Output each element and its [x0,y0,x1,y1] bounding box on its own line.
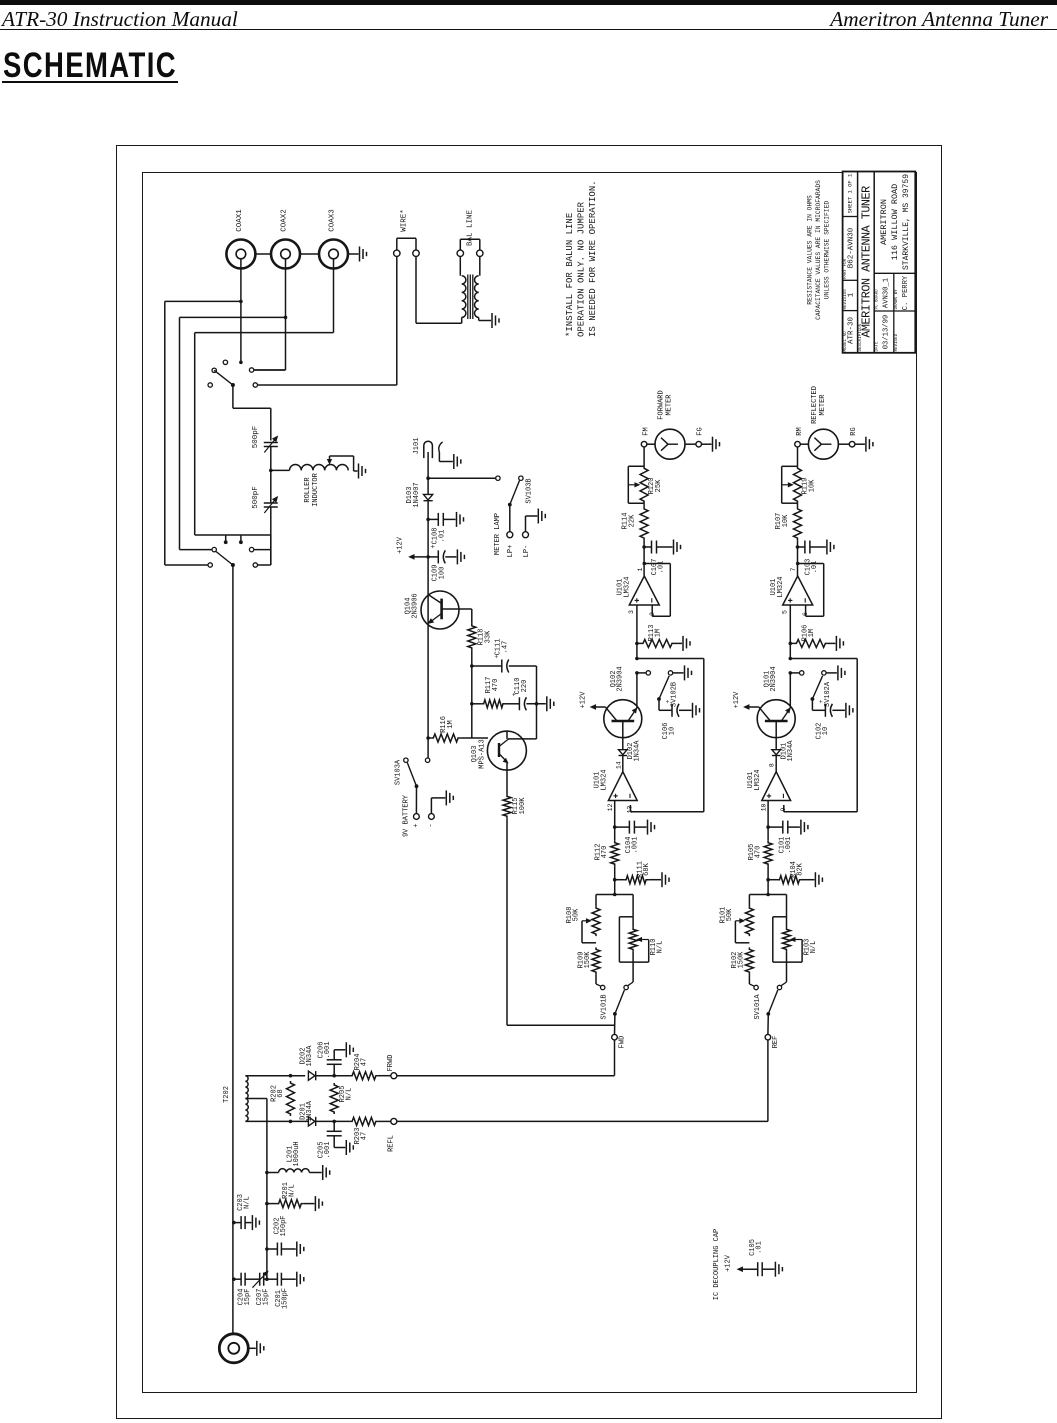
svg-text:RG: RG [850,427,858,435]
svg-text:10K: 10K [808,479,816,492]
svg-text:47: 47 [361,1132,369,1140]
svg-text:500pF: 500pF [252,486,260,509]
svg-text:FM: FM [643,427,651,435]
svg-text:N/L: N/L [810,941,818,954]
svg-text:STARKVILLE, MS 39759: STARKVILLE, MS 39759 [902,174,911,270]
svg-text:DRAWN BY: DRAWN BY [895,289,899,310]
svg-text:10: 10 [822,727,830,735]
svg-text:2N3906: 2N3906 [412,593,420,618]
svg-text:+12V: +12V [733,691,741,709]
svg-text:470: 470 [754,846,762,859]
svg-text:1000uH: 1000uH [293,1141,301,1166]
svg-text:LM324: LM324 [624,576,632,597]
svg-text:SV102A: SV102A [824,681,832,707]
svg-text:C. PERRY: C. PERRY [902,275,910,310]
svg-text:N/L: N/L [244,1196,252,1209]
svg-text:68K: 68K [643,862,651,875]
svg-text:14: 14 [615,761,622,769]
svg-text:150K: 150K [584,951,592,969]
svg-text:ROLLER: ROLLER [304,477,312,503]
svg-text:SV102B: SV102B [671,682,679,707]
svg-text:LM324: LM324 [601,769,609,790]
svg-text:1N34A: 1N34A [306,1100,314,1122]
svg-text:15pF: 15pF [263,1289,271,1306]
svg-text:+: + [412,823,420,827]
svg-text:MPS-A13: MPS-A13 [479,739,487,768]
svg-text:220: 220 [521,680,529,693]
svg-text:SV103B: SV103B [526,478,534,503]
svg-text:BAL LINE: BAL LINE [466,210,474,247]
svg-text:47: 47 [361,1058,369,1066]
svg-text:N/L: N/L [289,1184,297,1197]
svg-text:+12V: +12V [725,1254,733,1272]
svg-text:03/13/99: 03/13/99 [883,315,891,350]
svg-text:FORWARD: FORWARD [658,390,666,419]
svg-text:2N3904: 2N3904 [617,666,625,691]
svg-text:.01: .01 [756,1241,764,1254]
svg-text:1M: 1M [447,720,455,728]
svg-text:RM: RM [796,427,804,435]
svg-text:1: 1 [848,292,856,297]
svg-text:7: 7 [790,567,797,571]
svg-text:B62-AVN30: B62-AVN30 [848,227,856,268]
svg-text:FG: FG [697,427,705,435]
svg-text:.001: .001 [324,1142,332,1159]
svg-text:AVN30_1: AVN30_1 [883,278,891,308]
svg-text:1N34A: 1N34A [634,740,642,762]
svg-text:10: 10 [761,804,768,812]
svg-text:.001: .001 [632,837,640,854]
svg-text:10: 10 [669,727,677,735]
svg-text:REFLECTED: REFLECTED [811,386,819,424]
svg-text:1M: 1M [808,629,816,637]
svg-text:REVISED: REVISED [895,333,899,351]
svg-text:3: 3 [628,610,635,614]
svg-text:150K: 150K [737,951,745,969]
svg-text:*INSTALL FOR BALUN LINE: *INSTALL FOR BALUN LINE [565,213,575,337]
svg-text:1: 1 [637,567,644,571]
svg-text:UNLESS OTHERWISE SPECIFIED: UNLESS OTHERWISE SPECIFIED [824,201,831,299]
svg-text:10K: 10K [782,514,790,527]
svg-text:.001: .001 [785,837,793,854]
svg-text:LP-: LP- [523,545,531,558]
svg-text:CAPACITANCE VALUES ARE IN MICR: CAPACITANCE VALUES ARE IN MICROFARADS [815,180,822,320]
svg-text:FRWD: FRWD [387,1055,395,1072]
svg-text:+: + [430,544,438,548]
svg-text:.01: .01 [658,561,666,574]
svg-text:116 WILLOW ROAD: 116 WILLOW ROAD [890,184,900,261]
svg-text:150pF: 150pF [280,1215,288,1236]
svg-text:N/L: N/L [346,1088,354,1101]
svg-text:9: 9 [780,807,787,811]
svg-text:68: 68 [277,1089,285,1097]
svg-text:.47: .47 [502,641,510,654]
svg-text:+12V: +12V [580,691,588,709]
svg-text:LP+: LP+ [507,545,515,558]
svg-text:COAX3: COAX3 [329,209,337,232]
svg-text:METER: METER [666,394,674,416]
svg-text:RESISTANCE VALUES ARE IN OHMS: RESISTANCE VALUES ARE IN OHMS [807,195,814,305]
svg-text:470: 470 [492,679,500,692]
svg-text:1N34A: 1N34A [787,740,795,762]
svg-text:COAX2: COAX2 [281,209,289,232]
svg-text:100K: 100K [519,797,527,815]
svg-text:25K: 25K [655,479,663,492]
svg-text:REF: REF [772,1036,780,1049]
svg-text:+: + [818,699,825,703]
svg-text:1N34A: 1N34A [306,1045,314,1067]
svg-text:AMERITRON: AMERITRON [879,199,889,245]
svg-text:1N4007: 1N4007 [413,482,421,507]
svg-text:DATE: DATE [876,341,880,352]
svg-text:METER: METER [819,394,827,416]
svg-text:13: 13 [627,806,634,814]
svg-text:WIRE*: WIRE* [401,209,409,232]
svg-text:50K: 50K [726,908,734,921]
svg-text:J101: J101 [413,438,421,455]
svg-text:IS NEEDED FOR WIRE OPERATION.: IS NEEDED FOR WIRE OPERATION. [588,180,598,337]
svg-text:SV101B: SV101B [601,994,609,1019]
svg-text:12: 12 [607,804,614,812]
svg-text:.01: .01 [811,561,819,574]
svg-text:5: 5 [781,610,788,614]
svg-text:9V BATTERY: 9V BATTERY [403,794,411,837]
svg-text:INDUCTOR: INDUCTOR [312,472,320,506]
svg-text:15pF: 15pF [244,1289,252,1306]
svg-text:22K: 22K [629,514,637,527]
svg-text:REVISION: REVISION [844,289,848,310]
svg-text:470: 470 [601,846,609,859]
svg-text:LM324: LM324 [754,769,762,790]
svg-text:.001: .001 [324,1042,332,1059]
svg-text:N/L: N/L [657,941,665,954]
svg-text:IC DECOUPLING CAP: IC DECOUPLING CAP [713,1229,721,1300]
svg-text:8: 8 [769,763,776,767]
svg-text:150pF: 150pF [282,1288,290,1309]
svg-text:100: 100 [439,567,447,580]
svg-text:AMERITRON ANTENNA TUNER: AMERITRON ANTENNA TUNER [860,186,874,338]
svg-text:2N3904: 2N3904 [770,666,778,691]
svg-text:SV101A: SV101A [754,994,762,1020]
svg-text:COAX1: COAX1 [236,209,244,232]
svg-text:500pF: 500pF [252,426,260,449]
svg-text:PC BOARD: PC BOARD [876,289,880,310]
svg-text:.01: .01 [439,530,447,543]
svg-text:ATR-30: ATR-30 [848,317,856,345]
svg-text:50K: 50K [573,908,581,921]
svg-text:+12V: +12V [397,536,405,554]
svg-text:LM324: LM324 [777,576,785,597]
svg-text:T202: T202 [223,1086,231,1103]
svg-text:SV103A: SV103A [395,759,403,785]
svg-text:1M: 1M [655,629,663,637]
svg-text:33K: 33K [485,630,493,643]
svg-text:82K: 82K [796,862,804,875]
svg-text:METER LAMP: METER LAMP [494,513,502,555]
svg-text:OPERATION ONLY. NO JUMPER: OPERATION ONLY. NO JUMPER [577,201,587,337]
svg-text:FWD: FWD [619,1036,627,1049]
svg-text:REFL: REFL [388,1135,396,1152]
svg-text:-: - [427,823,435,827]
svg-text:SHEET 1 OF 1: SHEET 1 OF 1 [847,173,854,213]
svg-text:+: + [665,699,672,703]
